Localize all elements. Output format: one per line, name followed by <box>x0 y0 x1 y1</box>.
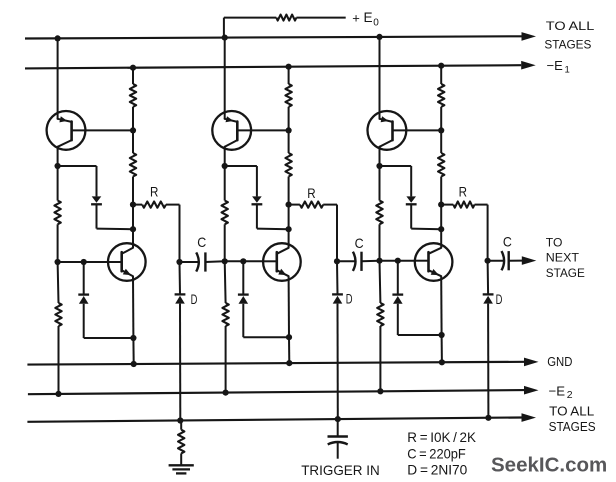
resistor R33 (base bias to -E2) <box>377 303 383 326</box>
junction stage3 collector node <box>438 226 444 232</box>
wire stage3 NPN base lead <box>415 260 429 262</box>
arrowhead top rail <box>522 32 537 41</box>
svg-text:D: D <box>191 291 198 307</box>
svg-text:R: R <box>459 184 467 200</box>
wire C2 output to stage3 base <box>362 260 380 263</box>
svg-text:C: C <box>355 235 364 251</box>
resistor R3 (coupling 10K/2K) <box>453 202 474 208</box>
resistor R1 (coupling 10K/2K) <box>142 202 166 208</box>
junction stage1 PNP base node <box>130 127 136 133</box>
capacitor C2 (220pF) <box>353 252 356 271</box>
wire stage2 collector into NPN <box>288 229 290 248</box>
junction stage3 collector L-node <box>376 163 382 169</box>
arrowhead GND rail <box>524 358 539 367</box>
wire stage3 xA into R32 <box>379 166 381 201</box>
wire stage1 D1 to bottom rail <box>179 304 181 421</box>
arrowhead bottom rail <box>522 413 537 422</box>
wire stage1 emitter to GND rail <box>132 338 134 364</box>
wire C1 output to stage2 base <box>205 260 224 263</box>
wire stage2 NPN base lead <box>263 260 277 262</box>
svg-text:+: + <box>352 10 360 25</box>
wire stage2 coupling node to C <box>337 260 355 262</box>
wire stage3 R33 to -E2 rail <box>379 326 381 391</box>
junction stage1 collector L-node <box>55 163 61 169</box>
wire bottom rail (TO ALL STAGES) <box>27 418 521 422</box>
svg-text:C = 220pF: C = 220pF <box>407 446 466 462</box>
wire stage2 xD to diode D2 <box>336 261 339 294</box>
svg-text:C: C <box>197 234 206 250</box>
svg-text:0: 0 <box>373 17 379 28</box>
wire -E2 rail <box>28 390 524 394</box>
wire stage1 emitter drop from top rail <box>57 38 59 113</box>
wire stage3 PNP collector drop <box>379 150 381 166</box>
junction stage3 on bottom rail <box>485 415 491 421</box>
wire stage2 R23 to -E2 rail <box>225 326 227 393</box>
transistor Q3a (PNP) <box>368 111 407 150</box>
wire stage2 R tap <box>289 204 300 206</box>
transistor Q1a (PNP) <box>47 111 86 150</box>
junction stage1 on GND rail <box>131 361 137 367</box>
diode D1 (coupling, cathode up) <box>175 293 186 295</box>
resistor R21 (collector load upper) <box>285 84 291 107</box>
wire stage3 base diode drop <box>397 261 399 295</box>
diode D12 (base clamp, cathode up) <box>78 293 89 295</box>
svg-text:−E: −E <box>547 58 564 73</box>
wire stage2 emitter down <box>288 276 290 337</box>
junction stage2 base node on xA <box>222 258 228 264</box>
wire stage3 base wire <box>380 260 415 262</box>
wire stage1 coupling node to C <box>180 261 199 263</box>
junction stage1 collector node <box>130 226 136 232</box>
wire stage1 emitter down <box>132 276 134 338</box>
junction stage1 on -E2 rail <box>55 391 61 397</box>
wire stage3 R tap <box>441 204 453 206</box>
diode D21 (collector clamp, cathode down) <box>252 196 262 202</box>
wire stage2 R22 to base node <box>224 224 226 261</box>
junction stage2 emitter/diode node <box>286 334 292 340</box>
svg-text:STAGES: STAGES <box>549 419 596 434</box>
resistor R11 (collector load upper) <box>130 84 136 107</box>
wire +E0 branch left segment <box>224 17 276 19</box>
capacitor C1 (220pF) <box>196 252 199 271</box>
svg-text:TO ALL: TO ALL <box>546 19 595 33</box>
wire stage3 D32 to emitter node <box>397 304 399 335</box>
resistor R0 (+E0 feed) <box>276 15 296 21</box>
wire stage3 R32 to base node <box>379 224 381 260</box>
wire stage3 D3 to bottom rail <box>487 304 489 418</box>
resistor R22 (feedback upper) <box>222 201 228 225</box>
junction stage3 xC on -E1 rail <box>438 63 444 69</box>
diode D32 (base clamp, cathode up) <box>392 293 403 295</box>
svg-text:D: D <box>496 291 503 307</box>
junction stage1 base node on xA <box>55 259 61 265</box>
resistor R12 (feedback upper) <box>54 201 60 225</box>
svg-text:D = 2NI70: D = 2NI70 <box>407 462 467 478</box>
wire stage2 emitter drop from top rail <box>224 38 226 114</box>
wire stage2 D2 to bottom rail <box>337 304 339 420</box>
junction stage2 R output node <box>286 202 292 208</box>
resistor R14 (collector load lower) <box>130 153 136 177</box>
svg-text:TO: TO <box>546 235 563 249</box>
capacitor C3 (220pF) <box>502 251 505 270</box>
wire stage1 base node into R13 <box>57 262 60 303</box>
wire top supply rail (TO ALL STAGES) <box>25 36 522 38</box>
wire stage1 R to xD corner <box>166 204 180 206</box>
wire stage3 R34 to collector node <box>440 177 442 230</box>
wire stage1 base diode drop <box>83 262 85 295</box>
junction stage2 coupling node <box>334 258 340 264</box>
wire stage3 base node into R33 <box>379 261 382 303</box>
junction stage1 xC on -E1 rail <box>130 65 136 71</box>
resistor R23 (base bias to -E2) <box>222 303 228 326</box>
wire stage2 PNP base lead <box>237 129 288 131</box>
junction stage3 on GND rail <box>439 359 445 365</box>
resistor R24 (collector load lower) <box>285 153 291 177</box>
wire stage3 PNP base lead <box>393 129 442 131</box>
svg-text:C: C <box>503 233 512 249</box>
resistor R5 (to ground) <box>178 430 184 454</box>
diode D2 (coupling, cathode up) <box>332 293 343 295</box>
junction stage1 on bottom rail <box>177 417 183 423</box>
resistor R2 (coupling 10K/2K) <box>300 202 323 208</box>
wire stage1 R12 to base node <box>57 224 59 262</box>
junction stage1 xA on top rail <box>55 35 61 41</box>
arrowhead -E2 rail <box>524 386 539 395</box>
wire stage1 D12 to emitter node <box>83 304 85 338</box>
wire stage3 xD to diode D3 <box>487 261 490 295</box>
wire GND rail <box>27 362 524 365</box>
wire stage3 xC top <box>440 66 442 84</box>
wire stage1 NPN base lead <box>108 261 122 263</box>
transistor Q3b (NPN 2N170) <box>415 243 453 281</box>
svg-text:GND: GND <box>547 354 572 369</box>
wire stage2 D21 to collector node <box>256 204 258 228</box>
svg-text:R: R <box>307 185 315 201</box>
wire stage3 L to diode D31 <box>380 165 412 167</box>
wire stage1 L to diode D11 <box>58 165 97 167</box>
wire stage2 R24 to collector node <box>288 177 290 230</box>
svg-text:TRIGGER IN: TRIGGER IN <box>301 462 380 478</box>
junction stage3 base node on xA <box>376 258 382 264</box>
junction stage1 emitter/diode node <box>130 335 136 341</box>
junction stage2 collector L-node <box>222 163 228 169</box>
wire stage2 xC top <box>288 67 290 84</box>
wire stage3 coupling node to C <box>488 260 504 262</box>
wire stage3 emitter to GND rail <box>441 335 443 362</box>
junction stage3 PNP base node <box>438 127 444 133</box>
svg-text:STAGES: STAGES <box>544 38 591 52</box>
junction stage3 base diode tap <box>395 258 401 264</box>
wire stage2 emitter to GND rail <box>288 337 290 363</box>
resistor R34 (collector load lower) <box>438 153 444 177</box>
wire stage3 D31 to collector node <box>410 204 412 228</box>
junction stage3 xA on top rail <box>376 34 382 40</box>
svg-text:STAGE: STAGE <box>546 266 585 280</box>
svg-text:1: 1 <box>565 65 570 76</box>
wire trigger leg <box>337 419 339 436</box>
diode D11 (collector clamp, cathode down) <box>92 196 102 202</box>
wire stage1 PNP collector drop <box>57 150 59 166</box>
junction stage2 xC on -E1 rail <box>286 64 292 70</box>
junction stage1 coupling node <box>176 259 182 265</box>
diode D3 (coupling, cathode up) <box>483 293 494 295</box>
wire +E0 branch right segment <box>296 17 345 19</box>
wire stage2 base diode drop <box>242 261 244 294</box>
wire stage2 xA into R22 <box>224 166 226 201</box>
junction stage2 on -E2 rail <box>223 390 229 396</box>
svg-text:NEXT: NEXT <box>546 251 580 265</box>
wire stage2 PNP collector drop <box>224 150 226 166</box>
junction stage2 xA on top rail <box>222 35 228 41</box>
svg-text:SeekIC.com: SeekIC.com <box>491 454 607 477</box>
svg-text:−E: −E <box>549 384 566 399</box>
junction stage3 R output node <box>438 202 444 208</box>
junction stage3 on -E2 rail <box>377 388 383 394</box>
ground symbol <box>169 464 194 466</box>
junction stage2 collector node <box>286 226 292 232</box>
wire -E1 rail <box>25 65 521 68</box>
svg-text:R: R <box>150 184 158 200</box>
wire stage3 collector into NPN <box>440 229 442 248</box>
wire stage3 emitter drop from top rail <box>379 37 381 114</box>
wire stage2 L to diode D21 <box>225 165 257 167</box>
wire stage1 D11 to collector node <box>96 204 98 228</box>
transistor Q1b (NPN 2N170) <box>108 243 146 281</box>
svg-text:E: E <box>364 10 373 25</box>
wire +E0 branch vertical <box>223 18 225 38</box>
junction stage1 R output node <box>130 202 136 208</box>
wire stage1 base wire <box>58 261 108 263</box>
svg-text:D: D <box>346 291 353 307</box>
wire stage3 emitter down <box>440 276 442 335</box>
resistor R13 (base bias to -E2) <box>55 303 61 326</box>
wire ground leg <box>180 421 182 430</box>
wire ground leg lower <box>180 453 182 465</box>
wire stage1 PNP base lead <box>72 129 133 131</box>
wire trigger stub <box>337 442 339 458</box>
svg-text:TO ALL: TO ALL <box>549 404 594 418</box>
wire stage1 R14 to collector node <box>132 177 134 230</box>
junction stage2 PNP base node <box>286 127 292 133</box>
junction stage3 emitter/diode node <box>439 332 445 338</box>
wire stage2 D22 to emitter node <box>242 304 244 337</box>
wire C3 output <box>509 260 522 262</box>
arrowhead to next stage <box>522 256 537 265</box>
junction stage1 base diode tap <box>81 259 87 265</box>
wire stage2 base node into R23 <box>224 261 227 303</box>
transistor Q2b (NPN 2N170) <box>263 243 301 281</box>
wire stage1 R13 to -E2 rail <box>58 326 60 394</box>
wire stage1 xD to diode D1 <box>179 262 182 294</box>
resistor R31 (collector load upper) <box>438 84 444 107</box>
wire stage3 R31 to base-lead node <box>440 107 442 153</box>
wire stage1 xC top <box>132 68 134 84</box>
wire stage2 R to xD corner <box>323 204 337 206</box>
wire stage1 R11 to base-lead node <box>132 107 134 153</box>
svg-text:2: 2 <box>567 389 573 401</box>
resistor R32 (feedback upper) <box>376 201 382 225</box>
wire stage2 base wire <box>225 260 263 262</box>
junction stage3 coupling node <box>485 258 491 264</box>
arrowhead -E1 rail <box>521 61 536 70</box>
wire stage2 R21 to base-lead node <box>288 107 290 153</box>
wire stage3 R to xD corner <box>475 204 488 206</box>
svg-text:R = I0K / 2K: R = I0K / 2K <box>407 429 476 445</box>
transistor Q2a (PNP) <box>212 111 251 150</box>
diode D31 (collector clamp, cathode down) <box>406 196 416 202</box>
wire stage1 R tap <box>133 204 142 206</box>
wire stage1 xA into R12 <box>57 166 59 201</box>
junction stage2 base diode tap <box>240 258 246 264</box>
junction stage2 on bottom rail <box>335 416 341 422</box>
junction stage2 on GND rail <box>286 360 292 366</box>
wire stage1 collector into NPN <box>132 229 134 248</box>
capacitor C4 (trigger input) <box>328 435 348 437</box>
diode D22 (base clamp, cathode up) <box>238 293 249 295</box>
